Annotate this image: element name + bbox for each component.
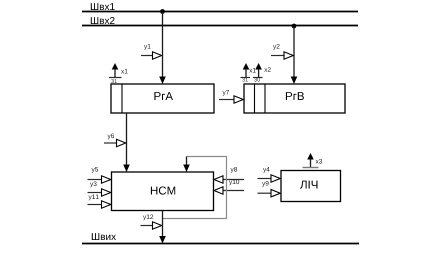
control y4 [258, 167, 281, 182]
adder НСМ [112, 172, 214, 211]
wire НСМ to Швих [159, 211, 166, 244]
control y12 [141, 215, 162, 230]
control y5 [88, 167, 111, 183]
node junction on Швх1 [160, 9, 165, 14]
bus Швх2 [82, 17, 358, 26]
control y8 [214, 167, 244, 183]
control y11 [88, 195, 111, 209]
register РгА [111, 84, 214, 113]
register РгВ [244, 84, 345, 113]
control y9 [258, 181, 281, 197]
wire РгА to НСМ [123, 113, 130, 172]
flag output x1 of РгВ (bit 31) [241, 63, 256, 82]
counter ЛІЧ [281, 171, 341, 202]
bus Швх1 [82, 3, 358, 11]
control y7 [219, 90, 243, 103]
control y2 [271, 44, 293, 59]
control y3 [88, 182, 111, 197]
wire Швх2 to РгВ [291, 26, 298, 84]
control y6 [104, 134, 126, 147]
wire Швх1 to РгА [159, 12, 166, 85]
node junction on Швх2 [292, 24, 297, 29]
control y1 [141, 44, 162, 59]
flag output x3 of ЛІЧ [303, 153, 323, 168]
feedback wire НСМ output to НСМ input [163, 157, 227, 219]
flag output x2 of РгВ (bit 30) [253, 63, 271, 82]
control y10 [214, 180, 244, 195]
flag output x1 of РгА (bit 31) [109, 63, 128, 83]
bus Швих [82, 233, 359, 243]
